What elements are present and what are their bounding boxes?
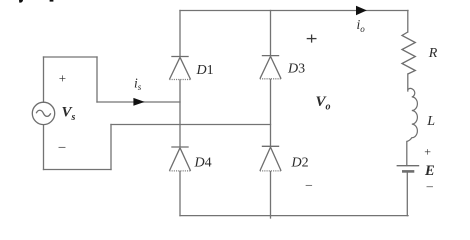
svg-text:E: E: [424, 163, 435, 179]
wire source loop bottom horizontal: [44, 169, 112, 171]
wire battery-to-bottom-rail: [406, 172, 408, 216]
svg-text:–: –: [426, 179, 434, 193]
wire i_s horizontal into bridge node A: [97, 101, 180, 103]
wire source loop right step up: [110, 125, 112, 170]
wire source top vertical: [43, 57, 45, 102]
svg-text:–: –: [58, 138, 66, 153]
wire middle bridge leg middle (D3 base to D2 bar): [270, 79, 272, 146]
resistor R zigzag: [402, 32, 415, 74]
svg-text:Vo: Vo: [316, 94, 331, 113]
AC source sine wave: [36, 110, 51, 116]
svg-text:R: R: [428, 46, 438, 61]
wire left bridge leg lower (below D4): [179, 171, 181, 216]
diode D3 symbol: [260, 56, 281, 79]
wire bottom rail: [180, 215, 408, 217]
wire source loop top horizontal: [44, 56, 98, 58]
svg-text:is: is: [134, 76, 142, 93]
svg-text:L: L: [426, 114, 435, 129]
descender mark 2 (cut text at top): [50, 0, 54, 2]
diode D2 symbol: [260, 146, 281, 171]
inductor L coil: [407, 88, 418, 141]
wire source bottom vertical: [43, 125, 45, 170]
label + of Vo: [307, 35, 317, 43]
wire top rail: [180, 10, 408, 12]
svg-text:–: –: [305, 177, 313, 191]
wire resistor-to-inductor: [407, 74, 409, 91]
wire left bridge leg middle (D1 base to D4 bar): [179, 80, 181, 148]
svg-text:D4: D4: [194, 156, 212, 171]
wire left bridge leg upper (above D1): [179, 11, 181, 57]
svg-text:D3: D3: [287, 62, 305, 77]
battery E long plate: [397, 165, 420, 167]
AC source Vs circle: [32, 102, 54, 124]
wire inductor-to-battery: [406, 142, 408, 166]
diode D1 symbol: [169, 57, 190, 80]
current arrow i_o: [356, 6, 367, 16]
diode D4 symbol: [169, 147, 190, 171]
svg-text:D2: D2: [291, 156, 309, 171]
wire middle bridge leg upper (above D3): [270, 11, 272, 56]
descender mark 1 (cut text at top): [19, 0, 23, 3]
wire middle horizontal to node B (D3-D2 midpoint): [111, 124, 271, 126]
svg-text:io: io: [357, 17, 366, 34]
svg-text:+: +: [424, 144, 431, 158]
svg-text:Vs: Vs: [62, 104, 76, 123]
battery E short thick plate: [402, 170, 414, 173]
wire middle bridge leg lower (below D2): [270, 171, 272, 218]
wire right rail top (to resistor): [407, 11, 409, 33]
wire source loop right step down: [96, 57, 98, 102]
svg-text:+: +: [59, 71, 66, 86]
svg-text:D1: D1: [196, 63, 214, 78]
current arrow i_s: [133, 98, 144, 106]
